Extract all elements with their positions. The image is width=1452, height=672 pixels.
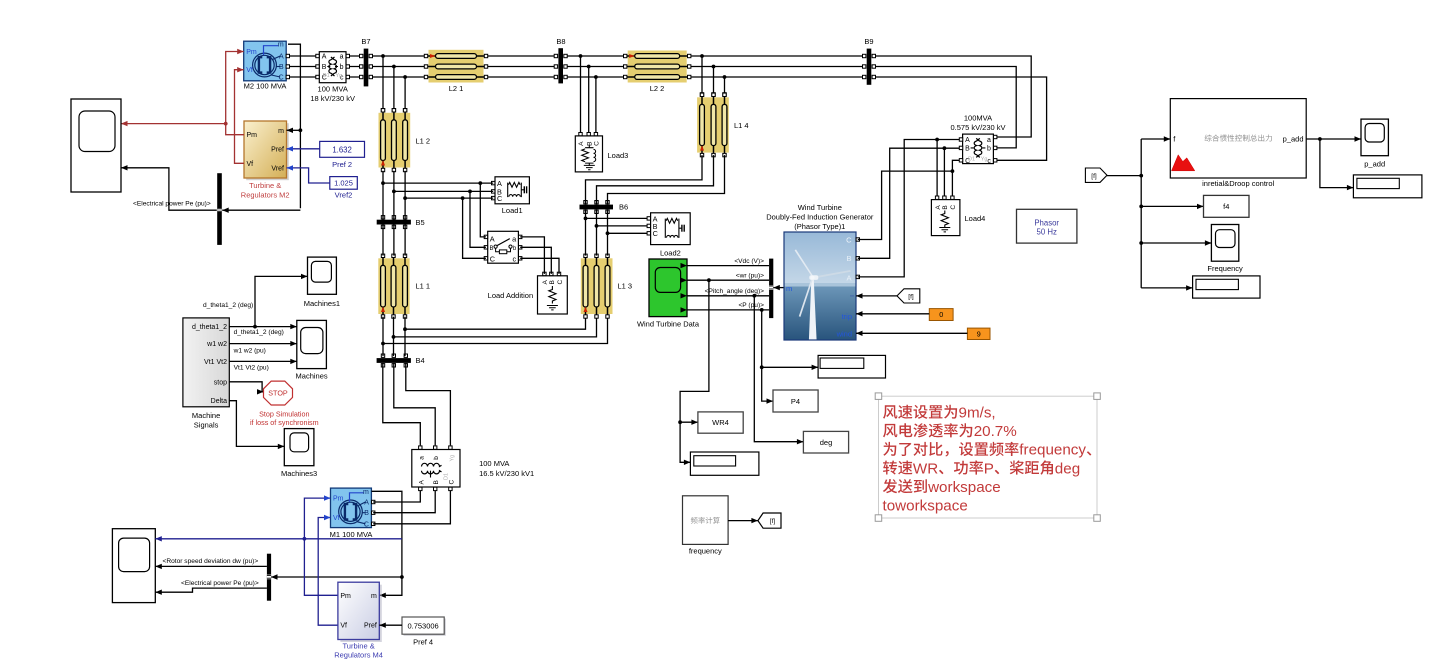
svg-text:0: 0	[939, 310, 943, 319]
label pitch	[705, 288, 765, 295]
svg-text:Pm: Pm	[246, 49, 257, 56]
svg-text:m: m	[278, 42, 284, 49]
svg-text:m: m	[363, 489, 369, 496]
wire breaker a to LoadAdd A	[520, 237, 544, 274]
wire L1 2 to Load1 C	[403, 171, 493, 220]
svg-text:<Vdc (V)>: <Vdc (V)>	[734, 258, 764, 265]
svg-text:<Rotor speed deviation dw (pu: <Rotor speed deviation dw (pu)>	[163, 558, 259, 565]
svg-text:100 MVA: 100 MVA	[318, 85, 348, 94]
svg-text:D1: D1	[323, 73, 330, 79]
wire p_add out	[1306, 136, 1361, 190]
wire L1 2 to Load1 B	[392, 171, 493, 220]
block deg	[803, 431, 848, 453]
transformer 100 MVA 16.5 kV/230 kV1	[412, 446, 534, 491]
scope bottom-left	[112, 529, 155, 603]
wire navy M4 Pm to M1	[304, 495, 338, 595]
svg-text:p_add: p_add	[1364, 160, 1385, 169]
wire TRM2 m input	[287, 128, 301, 133]
wire DFIG A to transformer	[858, 138, 961, 277]
svg-text:A: A	[846, 274, 851, 283]
svg-text:1.632: 1.632	[332, 146, 352, 155]
svg-text:C: C	[490, 254, 495, 263]
svg-text:Machines1: Machines1	[304, 299, 340, 308]
svg-text:Signals: Signals	[194, 420, 219, 429]
svg-text:C: C	[497, 194, 502, 203]
svg-text:<Electrical power Pe (pu)>: <Electrical power Pe (pu)>	[181, 580, 259, 587]
wire M2 m output	[288, 44, 302, 208]
svg-text:a: a	[340, 54, 344, 61]
bus selector bar DFIG	[769, 259, 773, 319]
bus B5	[377, 216, 425, 229]
wire Vt1Vt2 to Machines	[229, 359, 296, 364]
svg-text:B: B	[279, 64, 284, 71]
wire 0 to trip	[856, 311, 929, 316]
svg-text:B5: B5	[416, 218, 425, 227]
svg-text:9m/s,: 9m/s,	[959, 405, 996, 422]
svg-text:Vt1 Vt2: Vt1 Vt2	[204, 359, 227, 366]
label wr	[736, 272, 764, 279]
scope Wind Turbine Data	[637, 259, 700, 328]
svg-text:L1 1: L1 1	[416, 282, 431, 291]
svg-text:f4: f4	[1223, 202, 1229, 211]
svg-text:Doubly-Fed Induction Generator: Doubly-Fed Induction Generator	[766, 213, 874, 222]
svg-text:Pm: Pm	[247, 132, 258, 139]
svg-text:A: A	[322, 54, 327, 61]
wire L2 2 to L1 4 verticals	[700, 54, 726, 96]
wire breaker b to LoadAdd B	[520, 247, 551, 274]
svg-text:Wind Turbine Data: Wind Turbine Data	[637, 319, 700, 328]
wire L1 1 to L1 3 phase swap	[381, 317, 607, 356]
wire Pe to scope	[155, 588, 267, 595]
svg-text:L1 2: L1 2	[416, 137, 431, 146]
svg-text:M1 100 MVA: M1 100 MVA	[330, 530, 373, 539]
svg-text:Machines: Machines	[296, 372, 328, 381]
svg-text:Pref 4: Pref 4	[413, 638, 433, 647]
DFIG wind turbine block	[766, 203, 874, 340]
wire w1w2 to Machines	[229, 341, 296, 346]
svg-text:Vf: Vf	[246, 67, 253, 74]
svg-text:B6: B6	[619, 203, 628, 212]
line block L2 2	[624, 51, 691, 94]
transformer 100MVA 0.575kV	[950, 114, 1005, 165]
svg-text:Pref 2: Pref 2	[332, 160, 352, 169]
svg-text:1.025: 1.025	[334, 179, 353, 188]
wire navy M4 Vf to M1	[318, 515, 338, 625]
svg-text:<P (pu)>: <P (pu)>	[738, 302, 764, 309]
svg-text:<Electrical power Pe (pu)>: <Electrical power Pe (pu)>	[133, 201, 211, 208]
wire navy scope1	[155, 536, 402, 541]
line block L1 4	[697, 93, 749, 157]
svg-text:B: B	[433, 480, 440, 484]
wire B4 to transformer 16.5kV	[383, 363, 451, 445]
generator M2 100 MVA	[244, 41, 290, 90]
frequency calc block	[683, 496, 729, 556]
wire M1 A to transformer	[373, 491, 420, 502]
svg-text:C: C	[653, 229, 658, 238]
svg-text:Yg: Yg	[335, 73, 342, 79]
block P4	[773, 390, 818, 412]
svg-text:Vf: Vf	[340, 623, 347, 630]
svg-text:C: C	[364, 521, 369, 528]
display frequency	[1193, 276, 1260, 298]
wire red TRM2 Pm to M2	[226, 49, 244, 135]
wire P down to P4 and display	[760, 310, 818, 404]
svg-text:w1 w2: w1 w2	[206, 341, 227, 348]
generator M1 100 MVA	[330, 488, 375, 539]
svg-text:C: C	[846, 235, 852, 244]
wire 3-phase B8 to L2 2	[565, 56, 626, 77]
svg-text:Regulators M2: Regulators M2	[241, 190, 290, 199]
svg-text:18 kV/230 kV: 18 kV/230 kV	[310, 94, 355, 103]
svg-text:Turbine &: Turbine &	[342, 641, 374, 650]
svg-text:Regulators M4: Regulators M4	[334, 651, 383, 660]
svg-text:Turbine &: Turbine &	[249, 181, 281, 190]
label d_theta deg up	[203, 302, 253, 309]
label electrical power Pe bottom	[181, 580, 259, 587]
wire Vref2 to TRM2	[287, 165, 330, 183]
line block L2 1	[424, 50, 487, 93]
constant Vref2	[330, 177, 358, 200]
wire DFIG C to transformer	[858, 160, 961, 239]
svg-text:Pm: Pm	[340, 593, 351, 600]
svg-text:[f]: [f]	[1091, 173, 1097, 180]
svg-text:b: b	[987, 145, 991, 152]
svg-text:(Phasor Type)1: (Phasor Type)1	[794, 222, 845, 231]
wire Vdc	[681, 263, 770, 268]
scope Frequency	[1207, 225, 1243, 274]
svg-text:20.7%: 20.7%	[974, 423, 1017, 440]
breaker block	[484, 231, 522, 263]
svg-text:L1 4: L1 4	[734, 121, 749, 130]
svg-text:Load2: Load2	[660, 248, 681, 257]
wire L1 2 to Load1 A	[381, 171, 493, 220]
svg-text:100 MVA: 100 MVA	[479, 459, 509, 468]
svg-text:L2 2: L2 2	[650, 84, 665, 93]
wire from tag to DFIG	[856, 293, 897, 298]
wire B6 up to L1 4 feeders	[586, 155, 725, 205]
svg-text:Yg: Yg	[981, 156, 988, 162]
svg-text:Machine: Machine	[192, 411, 220, 420]
svg-text:d_theta1_2 (deg): d_theta1_2 (deg)	[234, 329, 284, 336]
wire dw to scope	[155, 564, 267, 569]
scope p_add	[1361, 119, 1388, 168]
svg-text:Load3: Load3	[608, 151, 629, 160]
svg-text:Pm: Pm	[333, 496, 344, 503]
svg-text:frequency: frequency	[689, 547, 722, 556]
svg-text:wind: wind	[836, 330, 852, 339]
svg-text:C: C	[449, 480, 456, 485]
svg-text:m: m	[786, 284, 792, 293]
svg-text:Load4: Load4	[965, 214, 986, 223]
svg-text:P: P	[984, 460, 994, 477]
wire Load1A to breaker A	[480, 183, 486, 237]
svg-text:B9: B9	[864, 37, 873, 46]
svg-text:A: A	[490, 235, 495, 244]
svg-text:m: m	[371, 593, 377, 600]
label stop simulation	[250, 410, 319, 428]
bus B6	[580, 201, 629, 214]
svg-text:inretial&Droop control: inretial&Droop control	[1202, 179, 1274, 188]
label P	[738, 302, 764, 309]
load Load4	[931, 196, 985, 236]
load Load Addition	[488, 272, 568, 314]
svg-text:WR: WR	[913, 460, 938, 477]
svg-text:c: c	[513, 254, 517, 263]
svg-text:if loss of synchronism: if loss of synchronism	[250, 418, 319, 427]
goto tag f	[758, 513, 781, 528]
svg-text:A: A	[279, 54, 284, 61]
svg-text:[f]: [f]	[770, 518, 776, 525]
svg-text:trip: trip	[842, 312, 852, 321]
svg-text:B: B	[322, 64, 327, 71]
svg-text:B: B	[965, 145, 970, 152]
svg-text:A: A	[418, 480, 425, 485]
bus B4	[377, 354, 425, 367]
svg-text:B7: B7	[361, 37, 370, 46]
wire Delta to Machines3	[229, 401, 284, 449]
line block L1 1	[378, 254, 430, 318]
svg-text:Vf: Vf	[333, 515, 340, 522]
wire d_theta to Machines and Machines1	[229, 274, 307, 330]
transformer 100 MVA 18 kV/230 kV	[310, 52, 355, 103]
svg-text:A: A	[965, 137, 970, 144]
annotation red text box	[875, 393, 1100, 521]
turbine regulators M4 block	[334, 582, 383, 660]
inertial droop control block	[1170, 99, 1306, 188]
wire 3-phase B9 to transformer	[874, 56, 1047, 160]
svg-text:Pref: Pref	[271, 146, 284, 153]
wire P	[681, 307, 770, 312]
wire M1 C to transformer	[373, 491, 450, 524]
wire DFIG B to transformer	[858, 146, 961, 258]
svg-text:D1: D1	[444, 473, 450, 480]
label Vdc	[734, 258, 764, 265]
wire freq to goto	[728, 518, 758, 523]
wire scope2 from bus selector	[121, 165, 300, 213]
wire f trunk	[1107, 136, 1211, 290]
scope Machines3	[281, 429, 317, 478]
svg-text:Yg: Yg	[450, 455, 456, 462]
from tag f DFIG	[897, 289, 920, 303]
svg-text:B4: B4	[416, 356, 425, 365]
wire 3-phase L2 2 to B9	[689, 56, 864, 77]
svg-text:16.5 kV/230 kV1: 16.5 kV/230 kV1	[479, 469, 534, 478]
svg-text:C: C	[557, 280, 564, 285]
svg-text:<Pitch_angle (deg)>: <Pitch_angle (deg)>	[705, 288, 765, 295]
svg-text:Vref2: Vref2	[335, 190, 353, 199]
svg-text:deg: deg	[820, 438, 833, 447]
svg-text:B: B	[549, 280, 556, 284]
svg-text:d_theta1_2 (deg): d_theta1_2 (deg)	[203, 302, 253, 309]
svg-text:Phasor: Phasor	[1034, 219, 1059, 228]
svg-text:deg: deg	[1055, 460, 1080, 477]
wire pitch	[681, 293, 770, 298]
wire Load1C to breaker C	[463, 198, 486, 258]
bus selector bar bottom	[267, 554, 271, 601]
svg-text:C: C	[594, 141, 601, 146]
svg-text:frequency: frequency	[1019, 442, 1086, 459]
svg-text:50 Hz: 50 Hz	[1037, 228, 1057, 237]
svg-text:B: B	[364, 510, 369, 517]
svg-text:[f]: [f]	[908, 293, 914, 300]
line block L1 3	[581, 254, 632, 318]
svg-text:Pref: Pref	[364, 623, 377, 630]
wire red TRM2 Vf to M2	[235, 67, 245, 163]
svg-text:A: A	[364, 500, 369, 507]
constant 9	[967, 328, 990, 339]
svg-text:B: B	[846, 254, 851, 263]
bus B8	[554, 37, 567, 83]
load Load3	[575, 136, 628, 172]
wire B5 to L1 1	[383, 225, 405, 256]
wire B6 down to Load2 and L1 3	[584, 209, 649, 255]
scope Machines	[296, 320, 328, 380]
svg-text:c: c	[987, 158, 991, 165]
svg-text:b: b	[340, 64, 344, 71]
svg-text:Machines3: Machines3	[281, 469, 317, 478]
label d_theta deg mid	[234, 329, 284, 336]
svg-text:A: A	[578, 141, 585, 146]
wire M1 m trunk	[271, 491, 404, 598]
display P	[818, 355, 885, 378]
svg-text:0.753006: 0.753006	[407, 622, 438, 631]
svg-text:Vf: Vf	[247, 161, 254, 168]
wire B7 to L1 2 verticals	[381, 54, 407, 112]
svg-text:a: a	[987, 137, 991, 144]
wire breaker c to LoadAdd C	[520, 258, 559, 274]
constant 0	[929, 309, 953, 321]
wire pitch down to deg	[754, 296, 803, 445]
wire DFIG m to bar	[773, 285, 784, 290]
svg-text:100MVA: 100MVA	[964, 114, 992, 123]
svg-text:stop: stop	[214, 379, 227, 386]
svg-text:A: A	[542, 280, 549, 285]
svg-text:Delta: Delta	[211, 398, 227, 405]
wire 3-phase M2 to B7	[288, 56, 426, 77]
load Load2	[647, 213, 690, 257]
wire wr	[681, 278, 770, 283]
svg-text:p_add: p_add	[1283, 134, 1304, 143]
scope Machines1	[304, 257, 340, 308]
wire stop to STOP	[229, 382, 263, 395]
svg-text:Vref: Vref	[271, 165, 284, 172]
wire red scope branch	[121, 121, 228, 126]
bus B9	[863, 37, 876, 85]
svg-text:b: b	[433, 456, 440, 460]
wire Load1B to breaker B	[470, 191, 486, 247]
svg-text:<wr (pu)>: <wr (pu)>	[736, 272, 764, 279]
wire Load4 drops	[937, 140, 952, 198]
svg-text:C: C	[950, 205, 957, 210]
scope top-left	[71, 99, 121, 192]
svg-text:workspace: workspace	[927, 479, 1001, 496]
svg-text:m: m	[278, 128, 284, 135]
stop block	[264, 381, 293, 405]
svg-text:Frequency: Frequency	[1207, 264, 1243, 273]
block f4	[1204, 195, 1250, 217]
label Vt1Vt2	[234, 364, 269, 371]
svg-text:L1 3: L1 3	[618, 282, 633, 291]
label Electrical power Pe pu top	[133, 201, 211, 208]
wire B8 to Load3 verticals	[579, 54, 598, 136]
svg-text:Vt1 Vt2 (pu): Vt1 Vt2 (pu)	[234, 364, 269, 371]
svg-text:STOP: STOP	[268, 389, 288, 398]
svg-text:9: 9	[977, 329, 981, 338]
svg-text:C: C	[279, 75, 284, 82]
wire 9 to wind	[856, 331, 967, 336]
svg-text:0.575 kV/230 kV: 0.575 kV/230 kV	[950, 123, 1005, 132]
wire M1 B to transformer	[373, 491, 435, 513]
wire Pref4 to M4	[379, 623, 402, 628]
display p_add	[1353, 175, 1422, 198]
wire wr down to WR4 and display	[678, 280, 709, 465]
bus B7	[360, 37, 373, 86]
svg-text:w1 w2 (pu): w1 w2 (pu)	[233, 347, 266, 354]
svg-text:M2 100 MVA: M2 100 MVA	[244, 82, 287, 91]
wire 3-phase L2 1 to B8	[486, 56, 556, 77]
svg-text:P4: P4	[791, 397, 800, 406]
svg-text:B: B	[490, 246, 494, 252]
svg-text:toworkspace: toworkspace	[883, 498, 968, 515]
load Load1	[492, 177, 530, 215]
constant Pref 4	[402, 617, 446, 647]
svg-text:Load Addition: Load Addition	[488, 291, 533, 300]
label rotor speed dw	[163, 558, 259, 565]
turbine regulators M2 block	[241, 121, 290, 199]
display under WR4	[690, 452, 759, 475]
svg-text:B8: B8	[556, 37, 565, 46]
svg-text:D1: D1	[968, 156, 975, 162]
from tag f right	[1085, 168, 1107, 182]
block WR4	[698, 412, 743, 433]
svg-text:A: A	[935, 205, 942, 210]
svg-text:Wind Turbine: Wind Turbine	[798, 203, 842, 212]
machine signals block	[183, 318, 229, 429]
svg-text:Load1: Load1	[502, 206, 523, 215]
svg-text:d_theta1_2: d_theta1_2	[192, 324, 227, 331]
constant Pref 2	[320, 141, 365, 169]
svg-text:a: a	[418, 456, 425, 460]
phasor block	[1017, 209, 1077, 243]
wire Pref2 to TRM2	[287, 146, 320, 151]
svg-text:B: B	[942, 205, 949, 209]
bus selector bar mid-left	[217, 173, 222, 245]
line block L1 2	[379, 109, 431, 172]
svg-text:WR4: WR4	[712, 418, 729, 427]
label w1w2	[233, 347, 266, 354]
svg-text:L2 1: L2 1	[449, 84, 464, 93]
